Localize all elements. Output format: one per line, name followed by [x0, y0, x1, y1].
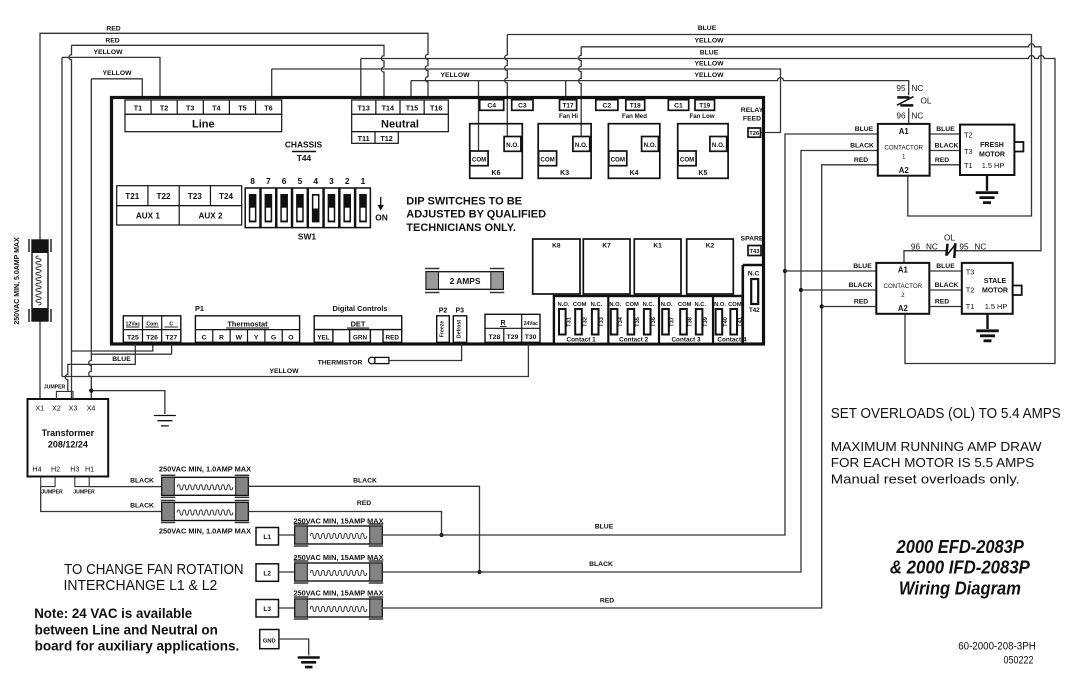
svg-text:CONTACTOR: CONTACTOR	[883, 283, 922, 290]
svg-text:6: 6	[282, 176, 287, 186]
svg-text:TECHNICIANS ONLY.: TECHNICIANS ONLY.	[406, 222, 516, 234]
contact terminal block Contact 1-4	[554, 296, 743, 344]
svg-text:YELLOW: YELLOW	[694, 72, 724, 79]
svg-text:T1: T1	[134, 103, 142, 112]
svg-text:T29: T29	[507, 334, 519, 341]
svg-text:60-2000-208-3PH: 60-2000-208-3PH	[958, 641, 1036, 653]
svg-text:T33: T33	[599, 317, 605, 327]
svg-text:T44: T44	[297, 153, 312, 163]
svg-text:T13: T13	[358, 103, 370, 112]
arrow ON	[380, 197, 382, 207]
svg-text:X4: X4	[87, 404, 96, 413]
svg-text:YEL: YEL	[317, 334, 330, 341]
wire BLUE from T13 to contactor2 A2	[361, 56, 1055, 364]
svg-text:T25: T25	[127, 334, 139, 341]
svg-text:T37: T37	[670, 317, 676, 327]
svg-text:K5: K5	[698, 170, 707, 177]
svg-text:T38: T38	[688, 317, 694, 327]
relay K8	[533, 239, 580, 294]
svg-text:T28: T28	[489, 334, 501, 341]
svg-text:95: 95	[896, 84, 906, 93]
fresh motor M1	[960, 125, 1014, 175]
svg-text:96: 96	[896, 112, 906, 121]
wire RED from X3 to T14	[69, 45, 384, 399]
svg-text:X2: X2	[52, 404, 61, 413]
svg-text:W: W	[236, 334, 243, 341]
svg-text:Manual reset overloads only.: Manual reset overloads only.	[831, 471, 1020, 486]
svg-text:CONTACTOR: CONTACTOR	[884, 145, 923, 152]
svg-text:T15: T15	[406, 103, 418, 112]
terminal strip T21-T24 AUX	[117, 186, 242, 206]
svg-text:R: R	[500, 320, 505, 327]
svg-text:208/12/24: 208/12/24	[48, 440, 88, 450]
svg-text:RED: RED	[854, 299, 868, 306]
svg-text:RED: RED	[935, 157, 949, 164]
wire BLACK H4 to fuse F3	[41, 487, 162, 512]
svg-text:YELLOW: YELLOW	[102, 70, 132, 77]
terminal C3	[512, 100, 533, 111]
svg-text:1.5 HP: 1.5 HP	[985, 302, 1008, 311]
svg-text:N.O.: N.O.	[506, 142, 519, 149]
relay K3	[538, 124, 591, 179]
svg-text:RED: RED	[105, 38, 119, 45]
wire BLUE contactor2 to motor2 T3	[929, 270, 962, 272]
svg-text:BLUE: BLUE	[936, 263, 955, 270]
svg-text:Transformer: Transformer	[42, 428, 95, 438]
svg-text:K7: K7	[602, 243, 611, 250]
terminal C1	[668, 100, 688, 111]
svg-text:P2: P2	[439, 308, 448, 315]
fuse F5 250VAC 15AMP	[295, 563, 382, 581]
svg-text:T3: T3	[964, 147, 973, 156]
svg-text:Note: 24 VAC is available: Note: 24 VAC is available	[34, 605, 192, 621]
svg-text:N.O.: N.O.	[712, 142, 725, 149]
svg-text:T39: T39	[703, 317, 709, 327]
transformer TR1	[28, 399, 109, 477]
control board outline	[112, 98, 764, 345]
motor2 ground	[986, 314, 988, 329]
svg-text:COM: COM	[573, 302, 587, 308]
svg-text:2000 EFD-2083P: 2000 EFD-2083P	[896, 536, 1025, 557]
svg-text:COM: COM	[680, 156, 694, 163]
wire YELLOW X2-line to T30	[62, 344, 528, 377]
terminal T19 Fan Low	[695, 100, 715, 111]
svg-text:N.O.: N.O.	[575, 142, 588, 149]
svg-text:BLACK: BLACK	[849, 282, 873, 289]
svg-text:1.5 HP: 1.5 HP	[982, 161, 1005, 170]
terminal strip T13-T16 Neutral	[352, 100, 449, 114]
svg-text:TO CHANGE FAN ROTATION: TO CHANGE FAN ROTATION	[64, 562, 243, 578]
svg-text:C: C	[169, 321, 173, 327]
svg-text:BLACK: BLACK	[935, 282, 959, 289]
svg-text:250VAC MIN, 15AMP MAX: 250VAC MIN, 15AMP MAX	[293, 517, 383, 526]
svg-text:T5: T5	[238, 103, 246, 112]
svg-text:P1: P1	[195, 304, 204, 313]
relay K6	[470, 124, 523, 179]
svg-text:H4: H4	[32, 465, 41, 474]
svg-text:L1: L1	[263, 534, 271, 541]
wire L3	[279, 607, 295, 609]
svg-text:T23: T23	[188, 192, 203, 201]
wire BLACK H1 to fuse F2	[89, 486, 162, 488]
svg-text:COM: COM	[540, 156, 554, 163]
chassis ground	[298, 658, 320, 668]
svg-text:250VAC MIN, 15AMP MAX: 250VAC MIN, 15AMP MAX	[293, 553, 383, 562]
svg-text:RELAY: RELAY	[741, 107, 764, 114]
svg-text:BLACK: BLACK	[353, 478, 377, 485]
svg-text:P3: P3	[456, 308, 465, 315]
svg-text:250VAC MIN, 1.0AMP MAX: 250VAC MIN, 1.0AMP MAX	[159, 465, 251, 474]
svg-text:2: 2	[901, 292, 905, 299]
svg-text:OL: OL	[921, 97, 932, 106]
svg-text:T30: T30	[525, 334, 537, 341]
svg-text:Fan Med: Fan Med	[622, 113, 647, 120]
wire RED bus tap to contactor2	[820, 304, 824, 308]
svg-text:T42: T42	[749, 307, 760, 314]
svg-text:FRESH: FRESH	[980, 142, 1004, 149]
svg-text:JUMPER: JUMPER	[73, 490, 95, 496]
svg-text:C: C	[202, 334, 207, 341]
fuse F6 250VAC 15AMP	[295, 599, 382, 617]
svg-text:T26: T26	[749, 131, 760, 137]
svg-text:NC: NC	[926, 243, 938, 252]
svg-text:JUMPER: JUMPER	[41, 490, 63, 496]
relay K1	[634, 239, 681, 294]
wire YELLOW from T6 to relay feed T26	[272, 69, 781, 133]
svg-text:INTERCHANGE L1 & L2: INTERCHANGE L1 & L2	[64, 578, 218, 594]
relay K4	[608, 124, 659, 179]
svg-text:MOTOR: MOTOR	[982, 288, 1008, 295]
svg-text:BLUE: BLUE	[853, 263, 872, 270]
fuse F4 250VAC 15AMP	[295, 526, 382, 544]
svg-text:BLUE: BLUE	[595, 524, 614, 531]
svg-text:RED: RED	[600, 598, 614, 605]
svg-text:ADJUSTED BY QUALIFIED: ADJUSTED BY QUALIFIED	[406, 209, 546, 221]
wire RED contactor2 to motor2 T1	[929, 306, 962, 308]
svg-text:BLUE: BLUE	[112, 356, 131, 363]
motor1 shaft stub	[1014, 142, 1023, 152]
svg-text:COM: COM	[472, 156, 486, 163]
wire X4 vertical with ground tap	[89, 79, 92, 399]
relay K7	[583, 239, 630, 294]
svg-text:96: 96	[911, 243, 921, 252]
wire BLUE from C4 relay to contactor1 A2	[505, 35, 1032, 217]
svg-text:NC: NC	[975, 243, 987, 252]
svg-text:RED: RED	[386, 334, 400, 341]
contactor 2	[876, 263, 929, 314]
jumper H3-H1	[75, 477, 89, 487]
fuse 2 AMPS	[426, 272, 503, 290]
svg-text:H2: H2	[51, 465, 60, 474]
motor2 shaft stub	[1013, 286, 1022, 296]
wire thermistor to P3 Defrost	[389, 344, 462, 361]
svg-text:12Vac: 12Vac	[126, 321, 141, 327]
svg-text:K4: K4	[630, 170, 639, 177]
svg-text:BLACK: BLACK	[935, 143, 959, 150]
svg-text:Line: Line	[192, 118, 215, 130]
svg-text:T14: T14	[382, 103, 394, 112]
svg-text:L3: L3	[263, 606, 271, 613]
svg-text:T43: T43	[750, 249, 761, 255]
wire BLACK contactor1 to motor1 T3	[930, 150, 960, 152]
svg-text:NC: NC	[912, 84, 924, 93]
svg-text:L2: L2	[263, 570, 271, 577]
svg-text:STALE: STALE	[984, 278, 1007, 285]
wire YELLOW from T15 to contactor1 OL, taps to C4 and T17	[411, 78, 909, 151]
svg-text:H1: H1	[85, 465, 94, 474]
svg-text:BLACK: BLACK	[850, 143, 874, 150]
svg-text:1: 1	[361, 176, 366, 186]
fuse F2 250VAC 1.0AMP	[162, 477, 248, 495]
svg-text:NC: NC	[912, 112, 924, 121]
svg-text:250VAC MIN, 5.0AMP MAX: 250VAC MIN, 5.0AMP MAX	[14, 237, 21, 325]
svg-text:K1: K1	[653, 243, 662, 250]
wire RED from X1 to T16	[40, 33, 428, 399]
svg-text:Contact 3: Contact 3	[671, 337, 701, 344]
wire RED L3 fuse to contactor bus	[382, 165, 878, 608]
wire T27 to X4	[91, 344, 171, 354]
terminal L2	[256, 564, 279, 582]
svg-text:A2: A2	[898, 304, 909, 313]
svg-text:FOR EACH MOTOR IS 5.5 AMPS: FOR EACH MOTOR IS 5.5 AMPS	[831, 455, 1034, 470]
svg-text:T2: T2	[964, 131, 973, 140]
terminal strip T1-T6 Line	[125, 100, 282, 114]
wire BLUE contactor1 to motor1 T2	[930, 133, 960, 135]
svg-text:K8: K8	[552, 243, 561, 250]
svg-text:250VAC MIN, 15AMP MAX: 250VAC MIN, 15AMP MAX	[293, 589, 383, 598]
svg-text:YELLOW: YELLOW	[694, 37, 724, 44]
wire BLUE T25 to jumper	[65, 344, 135, 391]
svg-text:X3: X3	[69, 404, 78, 413]
svg-text:OL: OL	[944, 233, 955, 242]
svg-text:Contact 1: Contact 1	[567, 337, 597, 344]
svg-text:FEED: FEED	[743, 116, 761, 123]
svg-text:T34: T34	[618, 316, 624, 327]
svg-text:BLUE: BLUE	[936, 126, 955, 133]
wire to signal ground	[91, 391, 165, 414]
wire L2	[279, 571, 295, 573]
wire BLUE L1 fuse to contactor bus	[382, 134, 878, 535]
wire RED contactor1 to motor1 T1	[930, 164, 960, 166]
svg-text:X1: X1	[35, 404, 44, 413]
svg-text:R: R	[219, 334, 224, 341]
relay K2	[687, 239, 734, 294]
svg-text:Contact 4: Contact 4	[717, 337, 747, 344]
svg-text:YELLOW: YELLOW	[269, 368, 299, 375]
svg-text:T18: T18	[630, 103, 641, 110]
svg-text:7: 7	[266, 176, 271, 186]
svg-text:N.O.: N.O.	[714, 302, 726, 308]
svg-text:GND: GND	[263, 638, 276, 644]
svg-text:T2: T2	[966, 286, 975, 295]
contactor 1	[878, 124, 930, 176]
svg-text:AUX 2: AUX 2	[198, 212, 223, 221]
motor1 ground	[986, 175, 988, 191]
svg-text:COM: COM	[625, 302, 639, 308]
svg-text:N.O.: N.O.	[609, 302, 621, 308]
svg-text:A1: A1	[899, 127, 910, 136]
svg-text:T1: T1	[964, 161, 973, 170]
wire BLACK contactor2 to motor2 T2	[929, 289, 962, 291]
fuse F3 250VAC 1.0AMP	[162, 503, 248, 521]
svg-text:MAXIMUM RUNNING AMP DRAW: MAXIMUM RUNNING AMP DRAW	[831, 439, 1043, 454]
svg-text:Thermostat: Thermostat	[227, 319, 268, 328]
wire GND	[279, 639, 309, 656]
wire L1	[279, 534, 295, 536]
svg-text:T12: T12	[380, 134, 392, 143]
svg-text:board for auxiliary applicatio: board for auxiliary applications.	[35, 638, 240, 654]
terminal block R 24Vac / T28 T29 T30	[485, 314, 540, 342]
svg-text:BLUE: BLUE	[700, 50, 719, 57]
svg-text:N.C: N.C	[748, 271, 760, 278]
svg-text:T22: T22	[156, 192, 171, 201]
signal ground	[154, 416, 176, 426]
svg-text:AUX 1: AUX 1	[136, 212, 161, 221]
wire YELLOW to T1	[91, 79, 142, 98]
svg-text:T3: T3	[186, 103, 194, 112]
svg-text:Y: Y	[254, 334, 259, 341]
svg-text:T36: T36	[651, 317, 657, 327]
wire BLACK L2 fuse to contactor bus	[382, 151, 878, 573]
svg-text:COM: COM	[728, 302, 742, 308]
svg-text:Digital Controls: Digital Controls	[332, 304, 387, 313]
svg-text:N.O.: N.O.	[644, 142, 657, 149]
svg-text:N.O.: N.O.	[558, 302, 570, 308]
wire BLACK fuse F2 to L2 line	[248, 486, 479, 572]
svg-text:A1: A1	[898, 266, 909, 275]
svg-text:C3: C3	[518, 103, 527, 110]
svg-text:Freeze: Freeze	[439, 321, 445, 338]
svg-text:O: O	[288, 334, 293, 341]
T42 compartment wall	[743, 265, 763, 343]
svg-text:DET: DET	[351, 319, 366, 328]
svg-text:3: 3	[329, 176, 334, 186]
svg-text:N.C.: N.C.	[591, 302, 603, 308]
svg-text:COM: COM	[678, 302, 692, 308]
wire BLACK bus tap to contactor2	[799, 288, 803, 292]
svg-text:Fan Low: Fan Low	[689, 113, 714, 120]
stale motor M2	[962, 263, 1013, 314]
svg-text:YELLOW: YELLOW	[440, 72, 470, 79]
svg-text:K2: K2	[706, 243, 715, 250]
svg-text:RED: RED	[854, 157, 868, 164]
svg-text:T31: T31	[566, 317, 572, 327]
svg-text:BLACK: BLACK	[589, 561, 613, 568]
terminals T11 T12	[352, 132, 399, 144]
svg-text:T35: T35	[635, 317, 641, 327]
svg-text:H3: H3	[70, 465, 79, 474]
svg-text:T17: T17	[562, 103, 573, 110]
svg-text:Defrost: Defrost	[456, 320, 462, 338]
svg-text:RED: RED	[106, 26, 120, 33]
svg-text:T2: T2	[160, 103, 168, 112]
svg-text:C2: C2	[602, 103, 611, 110]
svg-text:MOTOR: MOTOR	[979, 152, 1005, 159]
jumper H4-H2	[41, 477, 55, 487]
svg-text:T21: T21	[125, 192, 140, 201]
svg-text:A2: A2	[899, 166, 910, 175]
jumper X2-X3	[56, 391, 73, 399]
svg-text:N.C.: N.C.	[694, 302, 706, 308]
terminal C2	[596, 100, 618, 111]
svg-text:between Line and Neutral on: between Line and Neutral on	[35, 622, 218, 638]
svg-text:N.O.: N.O.	[661, 302, 673, 308]
svg-text:SPARE: SPARE	[741, 236, 764, 243]
svg-text:Wiring Diagram: Wiring Diagram	[899, 578, 1021, 599]
wire YELLOW from K3 relay to contactor2 OL	[579, 44, 1041, 263]
wire YELLOW to T2	[62, 57, 160, 376]
svg-text:DIP SWITCHES TO BE: DIP SWITCHES TO BE	[406, 196, 522, 208]
svg-text:RED: RED	[357, 500, 371, 507]
svg-text:050222: 050222	[1004, 655, 1034, 667]
svg-text:BLUE: BLUE	[855, 126, 874, 133]
svg-text:T4: T4	[212, 103, 220, 112]
svg-text:250VAC MIN, 1.0AMP MAX: 250VAC MIN, 1.0AMP MAX	[159, 527, 251, 536]
svg-text:Fan Hi: Fan Hi	[559, 113, 578, 120]
svg-text:5: 5	[298, 176, 303, 186]
svg-text:Com: Com	[146, 321, 158, 327]
wire BLUE bus tap to contactor2	[783, 269, 787, 273]
svg-text:BLACK: BLACK	[130, 503, 154, 510]
terminal L1	[256, 528, 279, 546]
svg-text:C1: C1	[674, 103, 683, 110]
svg-text:2 AMPS: 2 AMPS	[450, 276, 481, 286]
svg-text:T41: T41	[738, 317, 744, 327]
terminal T18	[626, 100, 645, 111]
svg-text:2: 2	[345, 176, 350, 186]
svg-text:T32: T32	[583, 317, 589, 327]
svg-text:1: 1	[902, 154, 906, 161]
svg-text:YELLOW: YELLOW	[694, 60, 724, 67]
svg-text:& 2000 IFD-2083P: & 2000 IFD-2083P	[890, 556, 1031, 577]
svg-text:CHASSIS: CHASSIS	[285, 140, 323, 150]
fuse F1 250VAC 5.0AMP on X1 line	[32, 240, 48, 321]
svg-text:SW1: SW1	[298, 232, 316, 242]
svg-text:T26: T26	[146, 334, 158, 341]
svg-text:YELLOW: YELLOW	[93, 49, 123, 56]
svg-text:GRN: GRN	[353, 334, 368, 341]
svg-text:RED: RED	[935, 299, 949, 306]
svg-text:K6: K6	[492, 170, 501, 177]
svg-text:Contact 2: Contact 2	[619, 337, 649, 344]
svg-text:95: 95	[959, 243, 969, 252]
svg-text:T27: T27	[165, 334, 177, 341]
svg-text:4: 4	[313, 176, 318, 186]
svg-text:T19: T19	[699, 103, 710, 110]
svg-text:T24: T24	[219, 192, 234, 201]
svg-text:K3: K3	[560, 170, 569, 177]
svg-text:T16: T16	[430, 103, 442, 112]
svg-text:T11: T11	[358, 134, 370, 143]
svg-text:BLUE: BLUE	[698, 25, 717, 32]
svg-text:COM: COM	[611, 156, 625, 163]
svg-text:JUMPER: JUMPER	[44, 385, 66, 391]
svg-text:T3: T3	[966, 268, 975, 277]
terminal L3	[256, 600, 279, 618]
terminal C4	[480, 100, 504, 111]
svg-text:THERMISTOR: THERMISTOR	[318, 360, 363, 367]
svg-text:SET OVERLOADS (OL) TO 5.4 AMPS: SET OVERLOADS (OL) TO 5.4 AMPS	[831, 406, 1061, 422]
svg-text:8: 8	[250, 176, 255, 186]
relay K5	[678, 124, 728, 179]
svg-text:ON: ON	[375, 213, 388, 223]
terminal block 12Vac Com C / T25 T26 T27	[123, 316, 181, 343]
svg-text:T40: T40	[723, 317, 729, 327]
terminal T17 Fan Hi	[560, 100, 577, 111]
terminal GND	[260, 630, 279, 649]
svg-text:C4: C4	[487, 103, 496, 110]
svg-text:T6: T6	[264, 103, 272, 112]
